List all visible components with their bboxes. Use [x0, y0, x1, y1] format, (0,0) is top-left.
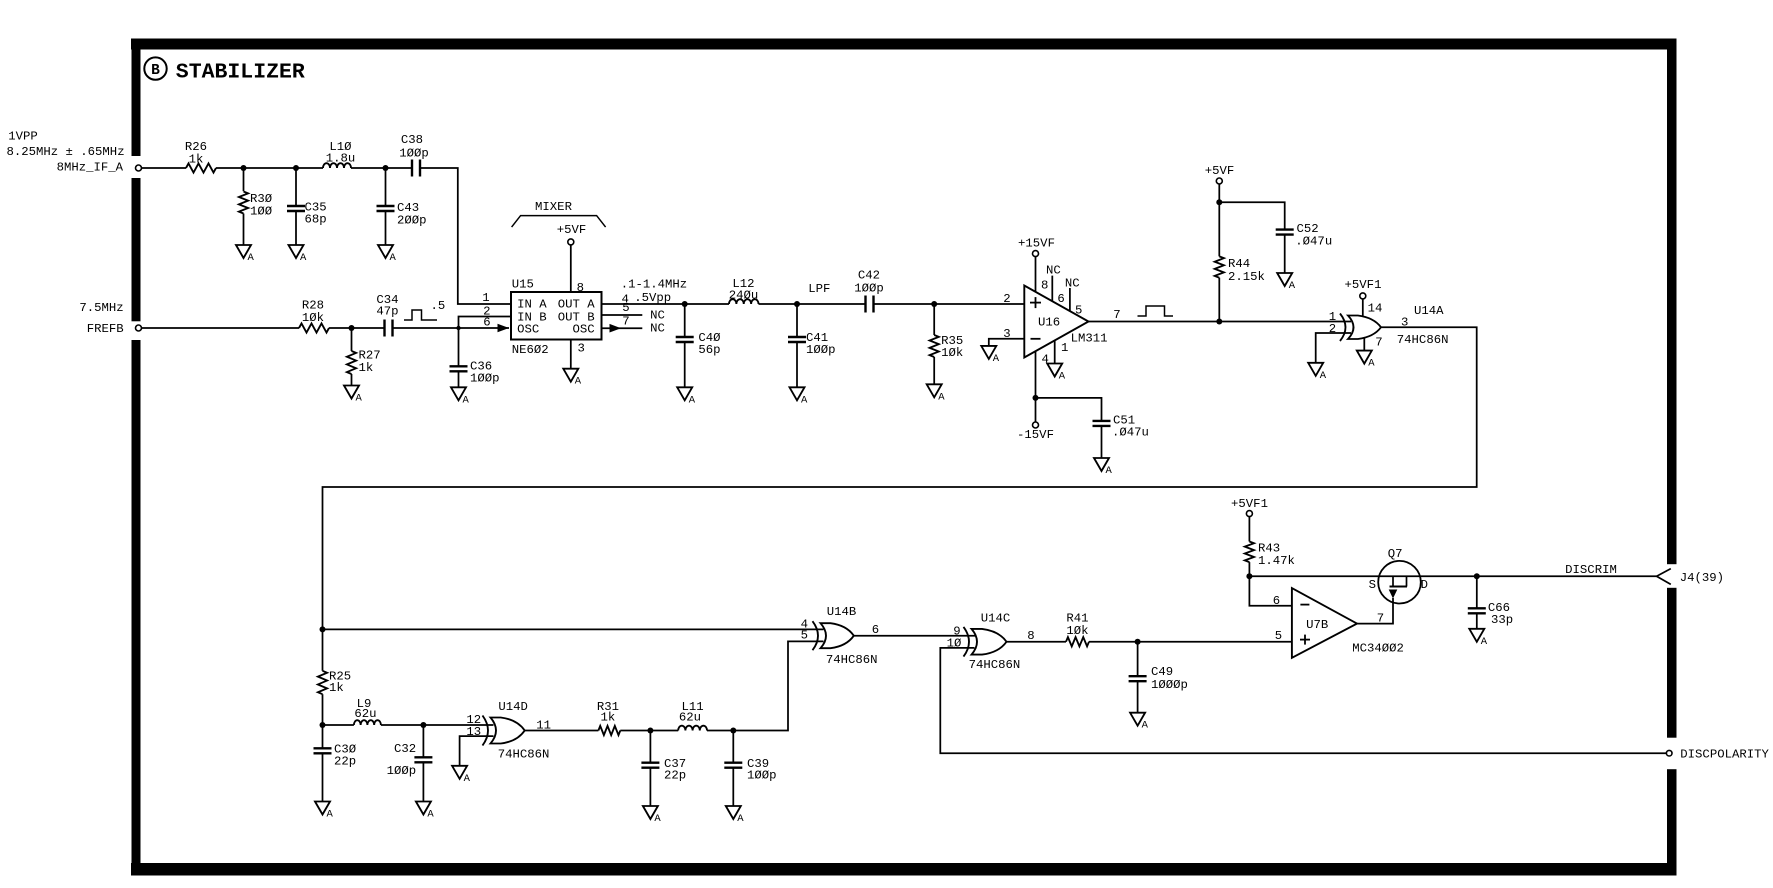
ground — [643, 806, 662, 825]
svg-text:A: A — [1059, 371, 1066, 383]
svg-text:U16: U16 — [1038, 316, 1060, 330]
output label .1-1.4MHz .5Vpp — [621, 278, 687, 307]
wire to U14B pin 4 — [323, 628, 824, 630]
terminal 8MHz_IF_A — [136, 165, 142, 171]
node — [241, 165, 247, 171]
svg-text:NE6Ø2: NE6Ø2 — [512, 343, 549, 357]
svg-text:C49: C49 — [1151, 665, 1173, 679]
svg-text:A: A — [390, 252, 397, 264]
svg-text:22p: 22p — [664, 769, 686, 783]
svg-text:DISCRIM: DISCRIM — [1565, 563, 1617, 577]
svg-text:2: 2 — [1003, 292, 1010, 306]
wire DISCRIM rail — [1249, 575, 1656, 577]
wire — [216, 167, 323, 169]
svg-text:.1-1.4MHz: .1-1.4MHz — [621, 278, 687, 292]
svg-text:U14D: U14D — [498, 700, 528, 714]
svg-text:68p: 68p — [305, 213, 327, 227]
svg-text:A: A — [938, 391, 945, 403]
border frame top — [131, 39, 1677, 50]
ground — [1308, 363, 1327, 382]
svg-text:1ØØp: 1ØØp — [747, 769, 777, 783]
svg-text:A: A — [689, 394, 696, 406]
svg-text:74HC86N: 74HC86N — [1397, 333, 1449, 347]
svg-text:1ØØp: 1ØØp — [387, 764, 417, 778]
svg-text:1ØØp: 1ØØp — [806, 343, 836, 357]
svg-text:62u: 62u — [354, 707, 376, 721]
svg-text:A: A — [801, 394, 808, 406]
svg-text:U7B: U7B — [1306, 618, 1328, 632]
connector J4(39) — [1657, 569, 1724, 585]
svg-text:OSC: OSC — [517, 323, 539, 337]
border frame bottom — [131, 863, 1677, 876]
svg-text:1VPP: 1VPP — [8, 130, 38, 144]
svg-text:22p: 22p — [334, 755, 356, 769]
ground — [726, 806, 745, 825]
resistor R31 — [597, 700, 620, 735]
svg-text:C32: C32 — [394, 742, 416, 756]
svg-text:2ØØp: 2ØØp — [397, 214, 427, 228]
svg-text:5: 5 — [622, 301, 629, 315]
svg-text:1ØØ: 1ØØ — [250, 205, 273, 219]
wire up to U14B pin 5 — [733, 641, 823, 730]
wire — [351, 167, 412, 169]
inductor L10 — [323, 140, 355, 168]
pin 14 wire and +5VF1 terminal — [1345, 278, 1382, 317]
svg-text:+5VF1: +5VF1 — [1231, 497, 1268, 511]
svg-text:8: 8 — [1041, 279, 1048, 293]
svg-text:1k: 1k — [329, 681, 344, 695]
node — [349, 325, 355, 331]
svg-text:74HC86N: 74HC86N — [969, 658, 1021, 672]
svg-text:MIXER: MIXER — [535, 200, 573, 214]
svg-text:MC34ØØ2: MC34ØØ2 — [1352, 642, 1404, 656]
inductor L12 — [729, 277, 759, 304]
capacitor C40 — [676, 304, 721, 387]
capacitor C36 — [450, 360, 500, 388]
terminal +5VF — [1205, 164, 1235, 184]
svg-text:14: 14 — [1368, 302, 1383, 316]
svg-text:OSC: OSC — [572, 323, 594, 337]
pin 5 NC stub — [1065, 277, 1082, 318]
capacitor C37 — [641, 731, 686, 807]
svg-text:.5Vpp: .5Vpp — [634, 291, 671, 305]
node — [1216, 319, 1222, 325]
ground — [416, 802, 435, 821]
svg-text:4: 4 — [1042, 353, 1049, 367]
pin 8 wire and +15VF terminal — [1018, 237, 1055, 293]
svg-text:.Ø47u: .Ø47u — [1295, 235, 1332, 249]
op-amp U7B MC34002 — [1292, 588, 1404, 658]
wire U14B output — [854, 635, 975, 637]
svg-text:B: B — [151, 63, 160, 79]
terminal DISCPOLARITY — [1666, 748, 1769, 762]
pin 7 wire and ground — [1363, 338, 1365, 351]
pin 6 NC stub — [1046, 264, 1065, 307]
svg-text:62u: 62u — [679, 711, 701, 725]
capacitor C35 — [287, 168, 327, 245]
pin 5 NC stub — [602, 301, 665, 323]
svg-text:1ØØØp: 1ØØØp — [1151, 678, 1188, 692]
pin 8 wire and +5VF terminal — [557, 223, 587, 295]
wire — [142, 327, 300, 329]
node — [1033, 395, 1039, 401]
wire — [142, 167, 187, 169]
svg-text:1Øk: 1Øk — [302, 311, 324, 325]
svg-text:.Ø47u: .Ø47u — [1112, 426, 1149, 440]
svg-text:7.5MHz: 7.5MHz — [79, 301, 123, 315]
wire — [874, 303, 1025, 305]
svg-text:A: A — [654, 813, 661, 825]
border frame right (3 segments with output gaps) — [1667, 39, 1677, 876]
wire — [759, 303, 866, 305]
svg-text:NC: NC — [650, 309, 665, 323]
svg-text:A: A — [1142, 720, 1149, 732]
wire — [707, 730, 733, 732]
svg-text:Q7: Q7 — [1388, 547, 1403, 561]
wire — [329, 327, 385, 329]
wire pin2 to C36 — [459, 317, 512, 367]
capacitor C34 — [376, 293, 398, 337]
svg-text:A: A — [300, 252, 307, 264]
terminal +5VF1 — [1231, 497, 1268, 517]
svg-text:LPF: LPF — [808, 282, 830, 296]
svg-text:1k: 1k — [601, 711, 616, 725]
wire — [1089, 641, 1292, 643]
svg-text:33p: 33p — [1491, 613, 1513, 627]
xor gate U14B 74HC86N — [801, 605, 880, 667]
svg-text:3: 3 — [1003, 327, 1010, 341]
resistor R30 — [239, 168, 273, 245]
svg-text:D: D — [1421, 578, 1428, 592]
svg-text:6: 6 — [1057, 292, 1064, 306]
xor gate U14A 74HC86N — [1329, 302, 1449, 350]
wire — [381, 724, 494, 726]
node — [1246, 573, 1252, 579]
svg-text:A: A — [463, 394, 470, 406]
svg-text:1Øk: 1Øk — [941, 346, 963, 360]
svg-text:A: A — [993, 353, 1000, 365]
ground — [1469, 629, 1488, 648]
wire — [1218, 184, 1220, 256]
node — [293, 165, 299, 171]
node — [420, 722, 426, 728]
svg-text:1Øk: 1Øk — [1066, 624, 1088, 638]
svg-text:7: 7 — [1375, 336, 1382, 350]
ground — [790, 387, 809, 406]
ground — [563, 369, 582, 388]
svg-text:DISCPOLARITY: DISCPOLARITY — [1680, 748, 1769, 762]
svg-text:-15VF: -15VF — [1017, 428, 1054, 442]
pulse annotation .5 — [404, 299, 445, 320]
capacitor C32 — [387, 725, 433, 802]
svg-text:A: A — [248, 252, 255, 264]
wire — [392, 327, 509, 329]
node — [647, 728, 653, 734]
svg-text:A: A — [575, 376, 582, 388]
xor gate U14C 74HC86N — [947, 612, 1035, 673]
capacitor C49 — [1129, 642, 1188, 713]
svg-text:A: A — [464, 773, 471, 785]
wire — [620, 730, 678, 732]
pin arrow into OSC — [498, 324, 510, 333]
ground — [1047, 364, 1066, 383]
resistor R41 — [1066, 612, 1089, 647]
svg-text:74HC86N: 74HC86N — [498, 748, 550, 762]
pin 1 stub and ground — [1055, 341, 1069, 364]
pulse annotation — [1138, 306, 1174, 316]
svg-text:24Øu: 24Øu — [729, 289, 759, 303]
mixer bracket label — [512, 200, 606, 227]
svg-text:LM311: LM311 — [1071, 332, 1108, 346]
svg-text:1k: 1k — [189, 153, 204, 167]
resistor R35 — [930, 304, 964, 384]
resistor R27 — [347, 328, 381, 386]
capacitor C42 — [854, 269, 884, 313]
svg-text:+5VF: +5VF — [1205, 164, 1235, 178]
capacitor C39 — [724, 731, 776, 807]
svg-text:+5VF: +5VF — [557, 223, 587, 237]
ground — [981, 346, 1000, 365]
ground — [1094, 458, 1113, 477]
resistor R26 — [185, 140, 216, 173]
svg-text:47p: 47p — [376, 305, 398, 319]
svg-text:C38: C38 — [401, 133, 423, 147]
xor gate U14D 74HC86N — [466, 700, 551, 762]
svg-text:A: A — [1481, 636, 1488, 648]
wire pin 6 feedback — [1249, 576, 1292, 606]
svg-text:C42: C42 — [858, 269, 880, 283]
svg-text:74HC86N: 74HC86N — [826, 653, 878, 667]
wire pin4 OUT A — [602, 303, 730, 305]
wire U14D output — [525, 730, 599, 732]
svg-text:1ØØp: 1ØØp — [854, 282, 884, 296]
svg-text:A: A — [1289, 280, 1296, 292]
capacitor C66 — [1468, 576, 1513, 629]
svg-text:NC: NC — [650, 322, 665, 336]
svg-text:+5VF1: +5VF1 — [1345, 278, 1382, 292]
svg-text:OUT A: OUT A — [558, 298, 596, 312]
node — [456, 326, 460, 330]
svg-text:8: 8 — [577, 281, 584, 295]
ground — [1357, 351, 1376, 370]
svg-text:3: 3 — [578, 342, 585, 356]
pin 4 wire to -15VF terminal — [1017, 351, 1054, 442]
ground — [452, 766, 471, 785]
svg-text:A: A — [327, 809, 334, 821]
svg-text:A: A — [1368, 358, 1375, 370]
svg-text:7: 7 — [1113, 308, 1120, 322]
capacitor C43 — [377, 168, 427, 245]
svg-text:FREFB: FREFB — [87, 322, 124, 336]
resistor R25 — [318, 629, 351, 725]
capacitor C51 — [1036, 398, 1149, 458]
svg-text:NC: NC — [1046, 264, 1061, 278]
ground — [677, 387, 696, 406]
capacitor C30 — [314, 725, 357, 802]
node — [682, 301, 688, 307]
svg-text:U14A: U14A — [1414, 304, 1444, 318]
svg-text:1ØØp: 1ØØp — [399, 147, 429, 161]
svg-text:.5: .5 — [431, 299, 446, 313]
svg-text:NC: NC — [1065, 277, 1080, 291]
svg-text:A: A — [1106, 465, 1113, 477]
svg-text:5: 5 — [801, 629, 808, 643]
ground — [378, 245, 397, 264]
node — [320, 626, 326, 632]
node — [730, 728, 736, 734]
svg-text:A: A — [427, 809, 434, 821]
svg-text:7: 7 — [1377, 612, 1384, 626]
svg-text:1: 1 — [482, 291, 489, 305]
node — [1216, 199, 1222, 205]
svg-text:8.25MHz ± .65MHz: 8.25MHz ± .65MHz — [7, 145, 125, 159]
op-amp U16 LM311 — [1024, 286, 1107, 358]
ground — [236, 245, 255, 264]
svg-text:U14C: U14C — [981, 612, 1011, 626]
wire pin 13 to ground — [460, 736, 494, 766]
pin 3 wire and ground — [989, 327, 1025, 346]
ground — [315, 802, 334, 821]
svg-text:1ØØp: 1ØØp — [470, 372, 500, 386]
inductor L9 — [323, 697, 381, 725]
wire pin 10 from DISCPOLARITY — [940, 648, 1666, 753]
border frame left (3 segments with input gaps) — [132, 39, 141, 876]
transistor Q7 — [1369, 547, 1428, 604]
svg-text:1.8u: 1.8u — [326, 152, 356, 166]
title circled B — [144, 57, 166, 79]
svg-text:1k: 1k — [359, 361, 374, 375]
svg-text:5: 5 — [1275, 629, 1282, 643]
wire — [420, 168, 511, 304]
svg-text:A: A — [1320, 370, 1327, 382]
capacitor C41 — [788, 304, 836, 387]
resistor R43 — [1245, 516, 1295, 576]
svg-text:R44: R44 — [1228, 257, 1250, 271]
input label 1VPP 8.25MHz — [7, 130, 125, 160]
ground — [451, 387, 470, 406]
svg-text:8MHz_IF_A: 8MHz_IF_A — [57, 161, 124, 175]
ground — [1130, 713, 1149, 732]
svg-text:S: S — [1369, 578, 1376, 592]
ground — [289, 245, 308, 264]
pin 3 wire and ground — [571, 340, 585, 369]
ground — [344, 386, 363, 405]
svg-text:J4(39): J4(39) — [1680, 571, 1724, 585]
wire U16 output pin 7 — [1089, 308, 1352, 322]
svg-text:U14B: U14B — [827, 605, 857, 619]
ground — [927, 384, 946, 403]
svg-text:56p: 56p — [698, 343, 720, 357]
svg-text:6: 6 — [483, 316, 490, 330]
capacitor C38 — [399, 133, 429, 177]
node — [320, 722, 326, 728]
pin 7 OSC NC stub with arrow — [602, 315, 665, 336]
svg-text:A: A — [737, 813, 744, 825]
node — [1474, 573, 1480, 579]
resistor R28 — [299, 299, 329, 333]
ground — [1277, 273, 1296, 292]
wire U14C output — [1007, 641, 1067, 643]
svg-text:7: 7 — [622, 315, 629, 329]
svg-text:STABILIZER: STABILIZER — [176, 61, 305, 85]
svg-text:2.15k: 2.15k — [1228, 270, 1265, 284]
resistor R44 — [1215, 256, 1265, 321]
svg-text:IN A: IN A — [517, 298, 547, 312]
inductor L11 — [678, 700, 707, 731]
wire U14A output feedback loop — [323, 327, 1477, 629]
node — [383, 165, 389, 171]
svg-text:A: A — [356, 393, 363, 405]
terminal FREFB — [136, 325, 142, 331]
svg-text:2: 2 — [1329, 322, 1336, 336]
node — [1135, 639, 1141, 645]
mixer U15 NE602 — [511, 278, 602, 358]
capacitor C52 — [1219, 202, 1332, 273]
wire U7B output pin 7 to Q7 gate — [1357, 598, 1393, 626]
svg-text:5: 5 — [1075, 304, 1082, 318]
wire pin 2 to ground — [1316, 333, 1351, 363]
node — [931, 301, 937, 307]
svg-text:1.47k: 1.47k — [1258, 554, 1295, 568]
svg-text:1: 1 — [1061, 341, 1068, 355]
node — [794, 301, 800, 307]
svg-text:U15: U15 — [512, 278, 534, 292]
svg-text:+15VF: +15VF — [1018, 237, 1055, 251]
